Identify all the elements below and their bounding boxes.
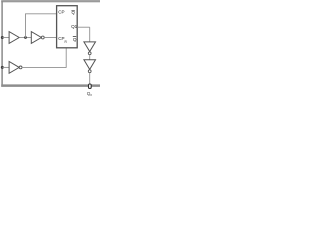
wire: input to buffer U1 bbox=[2, 37, 10, 39]
wire: up into R pin of U4 bbox=[65, 48, 67, 68]
inverter U2 bbox=[31, 32, 41, 44]
bubble of U3 bbox=[19, 66, 22, 69]
wire: Q1 output right bbox=[77, 26, 90, 28]
bubble of U2 bbox=[41, 36, 44, 39]
buffer U1 bbox=[9, 32, 19, 44]
wire: U3 output to R pin corner bbox=[22, 66, 66, 68]
bubble of U6 bbox=[88, 70, 91, 73]
wire: U2 output to CP pin bbox=[44, 37, 56, 39]
bottom bus bbox=[1, 84, 100, 87]
svg-text:x: x bbox=[90, 93, 92, 97]
wire: U1 output to U2 bbox=[19, 37, 31, 39]
top border line bbox=[1, 0, 100, 3]
inverter U3 bbox=[9, 62, 19, 74]
inverter U6 (down) bbox=[84, 60, 96, 70]
wire: U6 output down to output terminal bbox=[89, 73, 91, 85]
node: row1 input junction bbox=[1, 36, 4, 39]
svg-text:Q1: Q1 bbox=[71, 24, 78, 29]
node: CP tap junction bbox=[24, 36, 27, 39]
output terminal pad bbox=[89, 84, 92, 89]
wire: input to inverter U3 bbox=[2, 66, 10, 68]
flip-flop U4 bbox=[57, 6, 78, 48]
wire: to CP pin of U4 bbox=[25, 13, 56, 15]
inverter U5 (down) bbox=[84, 42, 96, 52]
svg-text:Q: Q bbox=[73, 37, 77, 42]
bubble of U5 bbox=[88, 52, 91, 55]
left border / input bus bbox=[1, 1, 3, 87]
wire: down to inverter U5 bbox=[89, 27, 91, 42]
wire: junction up bbox=[25, 14, 27, 38]
wire: U5 to U6 bbox=[89, 55, 91, 60]
svg-text:CP: CP bbox=[58, 10, 64, 15]
node: row2 input junction bbox=[1, 66, 4, 69]
overline of Qbar bbox=[73, 35, 76, 37]
